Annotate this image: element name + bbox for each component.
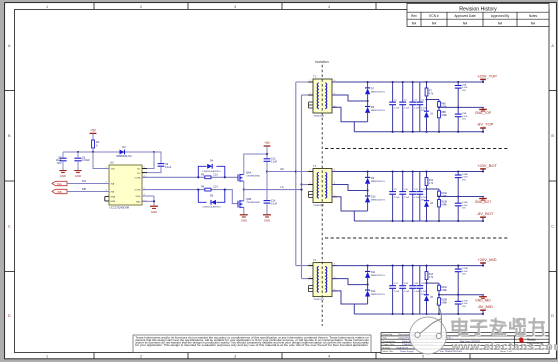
svg-text:1: 1 xyxy=(46,355,48,359)
svg-text:Notes: Notes xyxy=(529,14,538,18)
svg-text:D: D xyxy=(8,314,11,318)
wire INB to U2 xyxy=(67,191,109,193)
isolation barrier dashed line horizontal 2 xyxy=(325,237,509,239)
zone column ticks top xyxy=(93,3,95,10)
wire bus links T4 xyxy=(296,265,313,267)
wire INA to U2 xyxy=(67,183,109,185)
wire C9 branch xyxy=(154,152,161,163)
svg-text:D: D xyxy=(551,314,554,318)
svg-text:+5V: +5V xyxy=(264,141,271,145)
disclaimer text block xyxy=(133,335,371,352)
svg-text:0.1uF: 0.1uF xyxy=(462,271,468,273)
watermark circle logo xyxy=(410,317,447,354)
svg-text:2.2uF: 2.2uF xyxy=(271,161,278,164)
svg-text:0.1uF: 0.1uF xyxy=(462,177,468,179)
wire bottom rail TOP xyxy=(354,131,484,133)
svg-text:INA: INA xyxy=(111,183,115,186)
svg-text:Texas Instruments and/or its l: Texas Instruments and/or its licensors d… xyxy=(135,336,369,339)
svg-text:0.1uF: 0.1uF xyxy=(462,116,468,118)
svg-text:2.2uF: 2.2uF xyxy=(394,291,400,293)
diode D11 xyxy=(367,266,369,272)
title block xyxy=(381,333,549,354)
capacitor C18 xyxy=(402,266,404,286)
svg-text:INB: INB xyxy=(111,192,115,194)
svg-text:C17B: C17B xyxy=(462,300,468,302)
svg-text:UCC27524DGNR: UCC27524DGNR xyxy=(110,207,130,210)
svg-text:25V: 25V xyxy=(462,274,466,276)
capacitor C8 xyxy=(77,152,79,158)
wire secondary CT jog MID xyxy=(332,279,368,285)
wire secondary bottom jog BOT xyxy=(332,197,354,221)
svg-text:GND: GND xyxy=(151,210,157,214)
svg-text:LSM115JLA3TR13: LSM115JLA3TR13 xyxy=(202,206,221,209)
resistor R7 xyxy=(426,82,428,88)
svg-text:MBR0520LTIG: MBR0520LTIG xyxy=(371,92,385,94)
svg-text:R15B: R15B xyxy=(441,300,447,302)
capacitor C9 xyxy=(392,172,394,192)
svg-text:2.2uF: 2.2uF xyxy=(404,291,410,293)
resistor R14 xyxy=(426,266,428,272)
wire bus LS vertical xyxy=(301,95,303,279)
svg-text:Q4A: Q4A xyxy=(246,171,251,175)
capacitor C20 xyxy=(419,266,421,286)
svg-text:warrant that this design will: warrant that this design will meet the s… xyxy=(135,339,370,342)
svg-text:ENB: ENB xyxy=(111,201,116,203)
svg-text:INA: INA xyxy=(57,182,62,186)
svg-text:VDD: VDD xyxy=(111,169,116,171)
svg-text:Title:: Title: xyxy=(383,337,388,340)
ground flag GND_TOP xyxy=(482,107,484,109)
svg-text:2.2uF: 2.2uF xyxy=(394,107,400,109)
diode D10 xyxy=(367,191,369,196)
svg-text:25V: 25V xyxy=(462,306,466,308)
resistor R4 xyxy=(92,140,95,148)
svg-text:R8A: R8A xyxy=(441,102,446,105)
svg-text:0.1uF: 0.1uF xyxy=(462,87,468,89)
capacitor C15A xyxy=(457,172,459,175)
diode D2 xyxy=(120,150,125,155)
svg-text:MBR0520LTIG: MBR0520LTIG xyxy=(371,200,385,202)
svg-text:C: C xyxy=(551,225,554,229)
svg-text:INA: INA xyxy=(82,180,86,183)
ground flag GND_BOT xyxy=(482,197,484,199)
svg-text:MBR0520LTIG: MBR0520LTIG xyxy=(371,294,385,296)
svg-text:D11: D11 xyxy=(371,271,376,274)
wire bus HS vertical xyxy=(295,82,297,266)
svg-text:4.99k: 4.99k xyxy=(441,115,447,117)
wire secondary top rail TOP xyxy=(332,81,484,83)
svg-text:2.2uF: 2.2uF xyxy=(404,107,410,109)
diode D6 bypass loop xyxy=(198,190,206,203)
resistor R6 xyxy=(205,188,211,191)
wire Q4B drain xyxy=(243,190,245,201)
svg-text:C5A: C5A xyxy=(462,83,467,86)
diode D4 bypass loop xyxy=(198,166,206,177)
svg-text:+20V_MID: +20V_MID xyxy=(477,257,496,262)
resistor R15B xyxy=(438,295,440,298)
capacitor C4 xyxy=(419,82,421,102)
svg-text:NC: NC xyxy=(137,173,141,175)
pin stubs U2 right xyxy=(142,168,147,170)
svg-text:PAD: PAD xyxy=(136,200,141,203)
wire bus links T3 xyxy=(296,171,313,173)
svg-text:C15A: C15A xyxy=(462,173,468,176)
svg-text:750343373: 750343373 xyxy=(313,205,325,207)
resistor R13A xyxy=(438,189,440,191)
svg-text:0.1uF: 0.1uF xyxy=(462,303,468,305)
svg-text:R15A: R15A xyxy=(441,286,447,289)
svg-text:C5B: C5B xyxy=(462,113,467,115)
svg-text:+20V_TOP: +20V_TOP xyxy=(477,73,497,78)
transistor Q4B xyxy=(237,201,239,208)
wire bus links T2 xyxy=(296,81,313,83)
revision history table xyxy=(407,3,549,26)
svg-text:Drawn By:: Drawn By: xyxy=(383,333,393,336)
svg-text:2.2uF: 2.2uF xyxy=(404,197,410,199)
wire Q4B source to ground xyxy=(243,207,245,214)
svg-text:R12: R12 xyxy=(429,180,434,182)
svg-text:4: 4 xyxy=(328,355,330,359)
zener diode U5 xyxy=(424,294,429,296)
resistor R13B xyxy=(438,197,440,200)
capacitor C7 xyxy=(62,152,64,158)
svg-text:0.1uF: 0.1uF xyxy=(462,205,468,207)
svg-text:Power Supply: Power Supply xyxy=(400,350,414,353)
svg-text:1: 1 xyxy=(46,5,48,9)
svg-text:2.2uF: 2.2uF xyxy=(414,107,420,109)
wire +5V column xyxy=(266,161,268,200)
svg-text:LS: LS xyxy=(280,185,283,189)
ground flag GND_MID xyxy=(482,295,484,297)
svg-text:12.0: 12.0 xyxy=(213,186,218,189)
zone row ticks left xyxy=(5,90,15,92)
svg-text:B: B xyxy=(8,134,11,138)
capacitor C5A xyxy=(457,82,459,85)
svg-text:3: 3 xyxy=(234,355,236,359)
svg-text:A: A xyxy=(8,44,11,48)
svg-text:GND: GND xyxy=(60,174,66,178)
op-amp U2 gate driver UCC27524 xyxy=(109,165,142,205)
svg-text:750343373: 750343373 xyxy=(313,299,325,301)
wire Q4A source to LS node xyxy=(243,181,245,190)
wire bottom rail BOT xyxy=(354,220,484,222)
diode D12 xyxy=(367,285,369,290)
pin stubs T2 xyxy=(308,81,313,83)
svg-text:TIDA-00199: TIDA-00199 xyxy=(396,346,409,349)
capacitor C15B xyxy=(457,197,459,203)
svg-text:OUTA: OUTA xyxy=(134,176,140,179)
svg-text:25V: 25V xyxy=(462,208,466,210)
zener diode U3 xyxy=(424,200,429,202)
svg-text:R4: R4 xyxy=(96,140,100,144)
capacitor C5B xyxy=(457,107,459,113)
svg-text:HS: HS xyxy=(280,167,284,171)
wire LS xyxy=(244,189,302,191)
wire divider feed TOP xyxy=(427,99,440,101)
svg-text:-8V_TOP: -8V_TOP xyxy=(477,122,494,127)
svg-text:25V: 25V xyxy=(462,180,466,182)
svg-text:5: 5 xyxy=(422,355,424,359)
svg-text:-8V_MID: -8V_MID xyxy=(477,304,493,309)
svg-text:Approved Date: Approved Date xyxy=(454,14,475,18)
capacitor C13 xyxy=(264,158,271,160)
svg-text:-8V_BOT: -8V_BOT xyxy=(477,211,494,216)
svg-text:T2: T2 xyxy=(313,75,317,79)
svg-text:0.1uF: 0.1uF xyxy=(165,166,172,169)
svg-text:MBR0520LTIG: MBR0520LTIG xyxy=(371,110,385,112)
capacitor C17B xyxy=(457,295,459,301)
wire bottom rail MID xyxy=(354,313,484,315)
capacitor C17 xyxy=(392,266,394,286)
svg-text:R13A: R13A xyxy=(441,192,447,195)
svg-text:2.2uF: 2.2uF xyxy=(414,197,420,199)
wire secondary top rail BOT xyxy=(332,171,484,173)
pin stubs U2 left xyxy=(104,168,109,170)
resistor R15A xyxy=(438,283,440,285)
svg-text:MBR0520LTIG: MBR0520LTIG xyxy=(371,181,385,183)
svg-text:R13B: R13B xyxy=(441,201,447,203)
svg-text:0.33uF: 0.33uF xyxy=(82,159,90,162)
resistor R12 xyxy=(426,172,428,178)
svg-text:+5V: +5V xyxy=(90,129,97,133)
svg-text:ENA: ENA xyxy=(111,195,116,198)
ground GND under U2 xyxy=(142,195,154,197)
wire divider feed MID xyxy=(427,282,440,284)
svg-text:T4: T4 xyxy=(313,258,317,262)
svg-text:4: 4 xyxy=(328,5,330,9)
ground GND under Q4B xyxy=(240,214,248,216)
wire OUTB to Q4B gate xyxy=(142,189,225,191)
pin stubs T4 xyxy=(308,265,313,267)
capacitor C17A xyxy=(457,266,459,269)
svg-text:Rev: Rev xyxy=(411,14,417,18)
svg-text:D12: D12 xyxy=(371,290,376,293)
wire OUTA to Q4A gate xyxy=(142,176,238,178)
diode D8 xyxy=(367,101,369,106)
svg-text:25V: 25V xyxy=(462,119,466,121)
svg-text:+20V_BOT: +20V_BOT xyxy=(477,163,497,168)
logo Texas Instruments xyxy=(519,337,524,343)
svg-text:4.99k: 4.99k xyxy=(441,303,447,305)
svg-text:Number:: Number: xyxy=(383,346,392,349)
svg-text:Approved By: Approved By xyxy=(491,14,510,18)
svg-text:4.99k: 4.99k xyxy=(441,204,447,206)
svg-text:and/or its licensors do not wa: and/or its licensors do not warrant that… xyxy=(135,342,370,345)
wire VDD rail xyxy=(63,151,154,153)
svg-text:GND: GND xyxy=(264,218,270,222)
transformer T2 xyxy=(313,79,332,113)
svg-text:2.2uF: 2.2uF xyxy=(414,291,420,293)
svg-text:GND_BOT: GND_BOT xyxy=(475,200,491,204)
port IN_A xyxy=(52,181,67,185)
svg-text:12.0: 12.0 xyxy=(213,173,218,176)
wire ground rail MID xyxy=(439,294,484,296)
svg-text:Project Title:: Project Title: xyxy=(383,343,395,346)
capacitor C11 xyxy=(412,172,414,192)
svg-text:GND: GND xyxy=(136,196,141,198)
svg-text:Isolation: Isolation xyxy=(315,60,328,64)
svg-text:www.elecfans.com: www.elecfans.com xyxy=(451,341,558,353)
svg-text:OUTB: OUTB xyxy=(134,190,141,192)
svg-text:50V: 50V xyxy=(57,162,62,165)
zener diode U1 xyxy=(424,110,429,112)
svg-text:2.2uF: 2.2uF xyxy=(394,197,400,199)
svg-text:GND_TOP: GND_TOP xyxy=(475,111,492,115)
resistor R5 xyxy=(205,176,211,179)
wire Q4A drain to +5V node xyxy=(244,154,267,175)
transformer T3 xyxy=(313,169,332,203)
svg-text:C15B: C15B xyxy=(462,202,468,204)
ground GND under C14 xyxy=(263,214,271,216)
capacitor C12 xyxy=(419,172,421,192)
wire U2 VDD left to rail xyxy=(93,152,109,169)
ground GND under C7 xyxy=(59,170,66,172)
transformer T4 xyxy=(313,263,332,297)
wire secondary bottom jog MID xyxy=(332,291,354,314)
wire secondary top rail MID xyxy=(332,265,484,267)
ground GND under C8 xyxy=(74,170,81,172)
svg-text:ECN #: ECN # xyxy=(429,14,439,18)
wire secondary bottom jog TOP xyxy=(332,107,354,132)
svg-text:GND: GND xyxy=(241,218,247,222)
resistor R8B xyxy=(438,107,440,110)
capacitor C1 xyxy=(392,82,394,102)
wire HS xyxy=(267,171,296,173)
svg-text:CSD88539ND: CSD88539ND xyxy=(246,176,260,178)
svg-text:MBR0520LTIG: MBR0520LTIG xyxy=(371,275,385,277)
svg-text:T3: T3 xyxy=(313,164,317,168)
wire ground rail TOP xyxy=(439,106,484,108)
svg-text:CSD88539ND: CSD88539ND xyxy=(246,202,260,204)
diode D7 xyxy=(367,82,369,88)
svg-text:INB: INB xyxy=(57,190,62,194)
svg-text:0.1uF: 0.1uF xyxy=(271,202,278,205)
svg-text:R14: R14 xyxy=(429,274,434,276)
svg-text:Revision History: Revision History xyxy=(459,6,497,12)
isolation barrier dashed line horizontal 1 xyxy=(325,148,509,150)
zone column ticks bottom xyxy=(93,353,95,359)
svg-text:750343373: 750343373 xyxy=(313,115,325,117)
watermark chinese text xyxy=(452,319,468,336)
svg-text:INB: INB xyxy=(82,188,86,191)
svg-text:D10: D10 xyxy=(371,196,376,199)
transistor Q4A xyxy=(237,174,239,181)
svg-text:GND_MID: GND_MID xyxy=(475,298,491,302)
capacitor C2 xyxy=(402,82,404,102)
wire secondary CT jog BOT xyxy=(332,185,368,191)
svg-text:for your application. This des: for your application. This design is int… xyxy=(135,344,369,347)
svg-text:C17A: C17A xyxy=(462,267,468,270)
resistor R8A xyxy=(438,100,440,102)
wire rail to U2 VDD pin xyxy=(153,151,155,153)
svg-text:NC: NC xyxy=(137,169,141,171)
svg-text:2: 2 xyxy=(140,355,142,359)
pin stubs T3 xyxy=(308,171,313,173)
capacitor C3 xyxy=(412,82,414,102)
wire ground rail BOT xyxy=(439,196,484,198)
capacitor C9 xyxy=(158,163,165,165)
svg-text:2: 2 xyxy=(140,5,142,9)
svg-text:C: C xyxy=(8,225,11,229)
svg-text:Sheet Title:: Sheet Title: xyxy=(383,350,394,353)
wire secondary CT jog TOP xyxy=(332,95,368,101)
svg-text:U2: U2 xyxy=(110,161,114,165)
capacitor C19 xyxy=(412,266,414,286)
capacitor C10 xyxy=(402,172,404,192)
svg-text:GND: GND xyxy=(75,174,81,178)
svg-text:25V: 25V xyxy=(462,90,466,92)
svg-text:3: 3 xyxy=(234,5,236,9)
capacitor C14 xyxy=(264,200,271,202)
svg-text:Designed for:: Designed for: xyxy=(383,340,396,343)
svg-text:LSM115JLA3TR13: LSM115JLA3TR13 xyxy=(202,170,221,173)
svg-text:MBR0520LTIG: MBR0520LTIG xyxy=(116,156,131,158)
wire divider feed BOT xyxy=(427,188,440,190)
svg-text:4.99k: 4.99k xyxy=(441,290,447,292)
svg-text:Q4B: Q4B xyxy=(246,197,251,201)
svg-text:R8B: R8B xyxy=(441,112,446,114)
diode D9 xyxy=(367,172,369,178)
port IN_B xyxy=(52,189,67,193)
zone row ticks right xyxy=(549,90,556,92)
